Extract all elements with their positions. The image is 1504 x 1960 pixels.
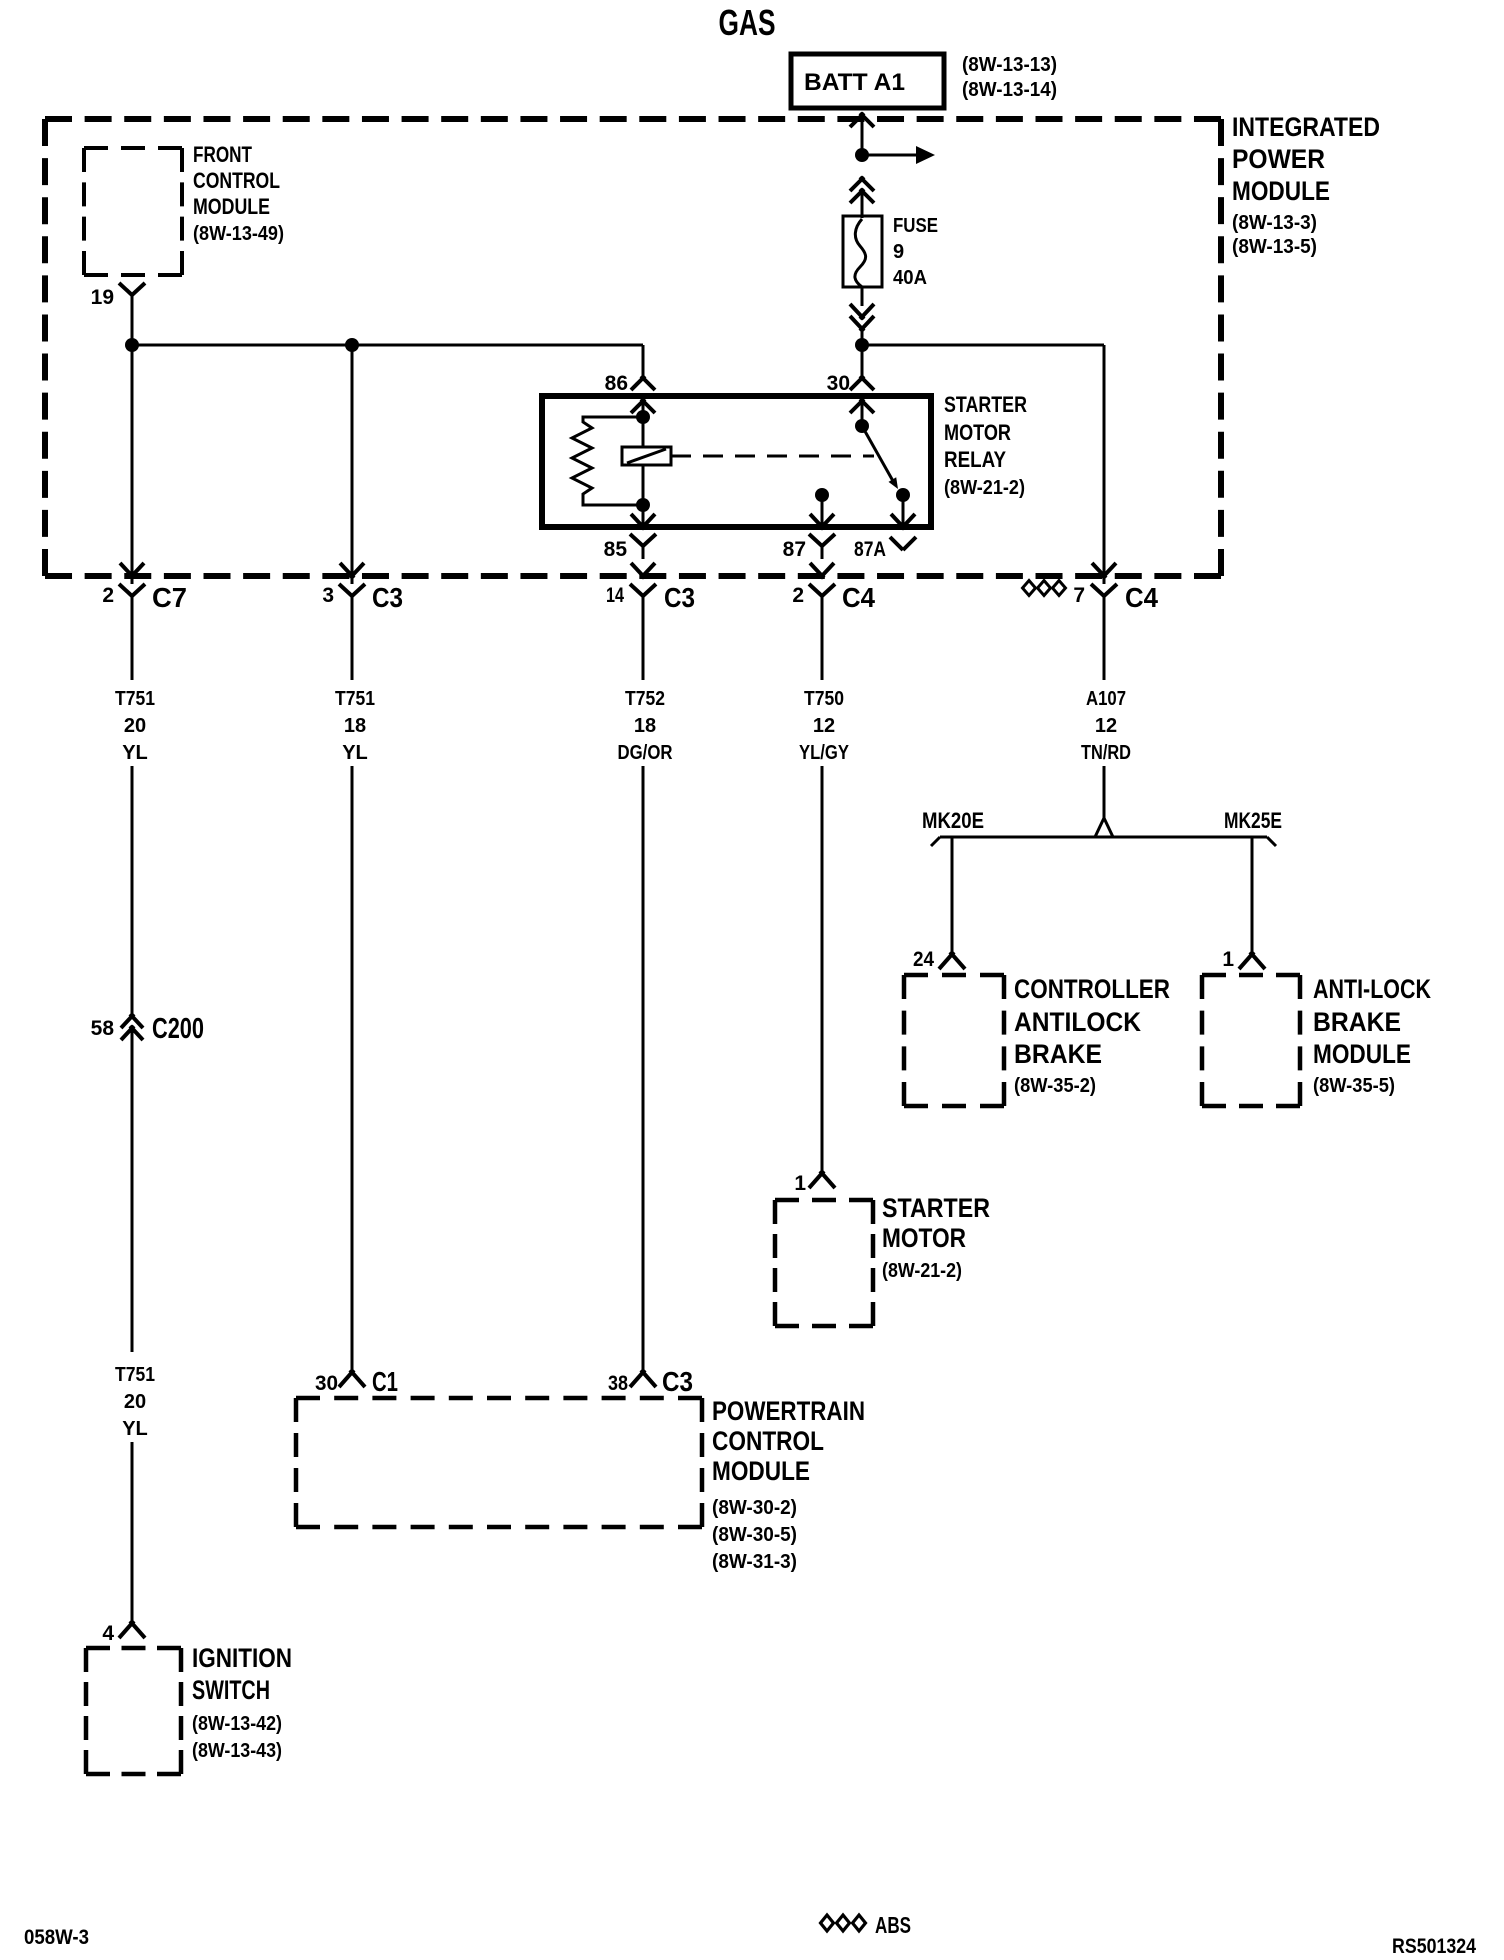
svg-text:A107: A107: [1086, 688, 1126, 710]
svg-text:30: 30: [827, 372, 850, 395]
label ignition switch: [192, 1643, 292, 1762]
node relay common pin30: [855, 419, 869, 433]
svg-text:C3: C3: [664, 582, 695, 613]
svg-text:(8W-35-5): (8W-35-5): [1313, 1075, 1395, 1097]
connector relay pin 85 exit arrow: [631, 514, 655, 529]
svg-text:STARTER: STARTER: [944, 392, 1027, 417]
svg-text:BATT A1: BATT A1: [804, 69, 905, 96]
svg-text:(8W-13-42): (8W-13-42): [192, 1713, 282, 1735]
label front control module: [193, 142, 284, 245]
svg-text:BRAKE: BRAKE: [1313, 1007, 1401, 1037]
wire junction to fuse: [861, 190, 864, 218]
node junction left bus: [125, 338, 139, 352]
svg-text:C1: C1: [372, 1366, 398, 1397]
splice of A107 to MK20E/MK25E: [931, 818, 1276, 846]
connector pin 85: [604, 534, 656, 561]
svg-text:(8W-21-2): (8W-21-2): [882, 1260, 962, 1282]
node fuse output junction: [855, 338, 869, 352]
label controller antilock brake: [1014, 974, 1170, 1097]
svg-text:STARTER: STARTER: [882, 1193, 990, 1223]
wire col4 to starter motor: [821, 766, 824, 1172]
svg-text:20: 20: [124, 715, 146, 737]
wire col3 to PCM: [642, 766, 645, 1371]
wire MK20E drop: [951, 837, 954, 953]
svg-text:TN/RD: TN/RD: [1081, 742, 1131, 764]
wire col4 below C4: [821, 595, 824, 680]
wire bus left (y=345): [132, 344, 643, 347]
ignition switch box (dashed): [86, 1648, 181, 1774]
label MK25E: [1224, 808, 1282, 833]
svg-text:C3: C3: [372, 582, 403, 613]
svg-text:CONTROL: CONTROL: [193, 168, 280, 193]
connector pin 1 (starter motor): [794, 1171, 835, 1195]
wire junction to relay pin30: [861, 345, 864, 377]
svg-text:30: 30: [315, 1372, 338, 1395]
svg-text:(8W-13-5): (8W-13-5): [1232, 236, 1317, 258]
wire col1 to C200: [131, 766, 134, 1015]
svg-text:ABS: ABS: [875, 1912, 911, 1938]
node relay contact 87: [815, 488, 829, 502]
wire fuse to chevrons: [861, 286, 864, 306]
svg-text:RELAY: RELAY: [944, 447, 1006, 472]
wire bus right (y=345): [862, 344, 1104, 347]
wire col2 bus to IPM edge: [351, 345, 354, 584]
fuse 9 40A: [843, 216, 882, 287]
connector 58 C200: [91, 1013, 204, 1045]
svg-text:86: 86: [605, 372, 628, 395]
svg-text:POWER: POWER: [1232, 144, 1325, 174]
svg-text:(8W-30-5): (8W-30-5): [712, 1524, 797, 1546]
powertrain control module box (dashed): [296, 1398, 702, 1527]
svg-text:MODULE: MODULE: [712, 1456, 810, 1486]
svg-text:(8W-13-49): (8W-13-49): [193, 223, 284, 245]
wire B+ tap arrow: [862, 146, 935, 164]
wire pin30 into relay: [861, 398, 864, 426]
connector arrow into BATT A1: [850, 113, 874, 127]
title GAS: [719, 2, 776, 43]
connector arrow col2 at IPM edge: [340, 563, 364, 578]
wire col5 drop from bus: [1103, 345, 1106, 584]
svg-text:19: 19: [91, 286, 114, 309]
label BATT A1 references: [962, 54, 1057, 101]
svg-text:MK20E: MK20E: [922, 808, 984, 833]
connector 14 C3: [606, 582, 695, 613]
label anti-lock brake module: [1313, 974, 1431, 1097]
svg-text:CONTROL: CONTROL: [712, 1426, 824, 1456]
svg-text:058W-3: 058W-3: [24, 1926, 89, 1949]
svg-text:MOTOR: MOTOR: [882, 1223, 966, 1253]
starter motor box (dashed): [775, 1200, 873, 1326]
connector 38 C3 (PCM): [608, 1366, 693, 1397]
svg-text:2: 2: [102, 584, 114, 607]
wire coil bottom lead: [642, 465, 645, 505]
relay switch arm to 87A: [862, 426, 898, 489]
svg-text:MK25E: MK25E: [1224, 808, 1282, 833]
battery feed box BATT A1: [791, 54, 944, 108]
svg-text:(8W-30-2): (8W-30-2): [712, 1497, 797, 1519]
svg-text:C4: C4: [842, 582, 875, 613]
svg-text:T750: T750: [804, 688, 844, 710]
connector arrow col5 at IPM edge: [1092, 563, 1116, 578]
svg-text:C3: C3: [662, 1366, 693, 1397]
svg-text:IGNITION: IGNITION: [192, 1643, 292, 1673]
wire col2 to PCM: [351, 766, 354, 1371]
svg-text:POWERTRAIN: POWERTRAIN: [712, 1396, 865, 1426]
wire col1 through IPM edge: [131, 345, 134, 584]
connector pin 19 (FCM): [91, 283, 145, 309]
connector 2 C7: [102, 582, 187, 613]
svg-text:3: 3: [322, 584, 334, 607]
wire pin85 exit: [642, 505, 645, 526]
node B+ junction: [855, 148, 869, 162]
svg-text:T751: T751: [115, 688, 155, 710]
node relay coil bottom: [636, 498, 650, 512]
label drawing number RS501324: [1392, 1935, 1476, 1958]
label wire T750 12 YL/GY (col4): [799, 688, 850, 764]
svg-text:ANTILOCK: ANTILOCK: [1014, 1007, 1141, 1037]
svg-text:14: 14: [606, 584, 624, 607]
svg-text:T751: T751: [115, 1364, 155, 1386]
svg-text:4: 4: [102, 1622, 114, 1645]
footnote ABS diamonds: [821, 1912, 912, 1938]
connector pin 87A: [854, 537, 916, 561]
svg-text:87A: 87A: [854, 538, 886, 561]
svg-text:85: 85: [604, 538, 628, 561]
connector pin 1 (ABM): [1222, 948, 1265, 971]
wire MK25E drop: [1251, 837, 1254, 953]
svg-text:2: 2: [792, 584, 804, 607]
svg-text:GAS: GAS: [719, 2, 776, 43]
connector double chevron below fuse: [850, 304, 874, 331]
svg-text:YL/GY: YL/GY: [799, 742, 850, 764]
anti-lock brake module box (dashed): [1202, 975, 1300, 1106]
svg-text:7: 7: [1073, 584, 1085, 607]
wire BATT to junction: [861, 114, 864, 155]
svg-text:MODULE: MODULE: [1232, 176, 1330, 206]
svg-text:(8W-21-2): (8W-21-2): [944, 477, 1025, 499]
connector arrow col4 at IPM edge: [810, 563, 834, 578]
svg-text:40A: 40A: [893, 267, 927, 289]
connector arrow col1 at IPM edge: [120, 563, 144, 578]
label wire A107 12 TN/RD (col5): [1081, 688, 1131, 764]
connector pin 24 (CAB): [913, 948, 965, 971]
svg-text:58: 58: [91, 1017, 115, 1040]
label wire T751 20 YL (col1 lower): [115, 1364, 155, 1440]
svg-text:SWITCH: SWITCH: [192, 1675, 270, 1705]
connector 2 C4: [792, 582, 875, 613]
svg-text:(8W-13-13): (8W-13-13): [962, 54, 1057, 76]
svg-text:BRAKE: BRAKE: [1014, 1039, 1102, 1069]
svg-text:YL: YL: [122, 742, 148, 764]
label integrated power module: [1232, 112, 1380, 258]
svg-text:RS501324: RS501324: [1392, 1935, 1476, 1958]
svg-text:C4: C4: [1125, 582, 1158, 613]
connector 7 C4 with ABS diamonds: [1023, 581, 1159, 614]
svg-text:FUSE: FUSE: [893, 215, 938, 237]
svg-text:1: 1: [1222, 948, 1234, 971]
front control module box (dashed): [84, 148, 182, 275]
wire col1 to ignition switch: [131, 1442, 134, 1622]
node junction mid bus: [345, 338, 359, 352]
svg-text:1: 1: [794, 1172, 806, 1195]
svg-text:24: 24: [913, 948, 934, 971]
svg-text:20: 20: [124, 1391, 146, 1413]
svg-text:(8W-13-43): (8W-13-43): [192, 1740, 282, 1762]
wire pin87A exit: [902, 495, 905, 526]
controller antilock brake box (dashed): [904, 975, 1004, 1106]
svg-text:YL: YL: [342, 742, 368, 764]
wire coil top lead: [642, 417, 645, 447]
wire FCM pin19 to bus: [131, 294, 134, 345]
svg-text:(8W-31-3): (8W-31-3): [712, 1551, 797, 1573]
svg-text:18: 18: [634, 715, 656, 737]
wire col2 below C3: [351, 595, 354, 680]
svg-text:YL: YL: [122, 1418, 148, 1440]
svg-text:DG/OR: DG/OR: [618, 742, 673, 764]
svg-text:CONTROLLER: CONTROLLER: [1014, 974, 1170, 1004]
svg-text:MODULE: MODULE: [1313, 1039, 1411, 1069]
label starter motor: [882, 1193, 990, 1282]
svg-text:9: 9: [893, 241, 904, 263]
connector double chevron below B+: [850, 177, 874, 203]
connector arrow col3 at IPM edge: [631, 563, 655, 578]
connector relay pin 30: [827, 372, 874, 413]
svg-text:C200: C200: [152, 1013, 204, 1045]
svg-text:FRONT: FRONT: [193, 142, 252, 167]
connector 30 C1 (PCM): [315, 1366, 398, 1397]
label starter motor relay: [944, 392, 1027, 499]
wire pin87 exit: [821, 495, 824, 526]
wire coil actuator dashed link: [671, 455, 874, 458]
label wire T752 18 DG/OR (col3): [618, 688, 673, 764]
wire relay pin86 drop: [642, 345, 645, 377]
node relay contact 87A: [896, 488, 910, 502]
wire pin86 into relay: [642, 398, 645, 417]
svg-text:T751: T751: [335, 688, 375, 710]
label wire T751 18 YL (col2): [335, 688, 375, 764]
wire col1 below C7: [131, 595, 134, 680]
label powertrain control module: [712, 1396, 865, 1573]
label sheet number 058W-3: [24, 1926, 89, 1949]
relay coil: [622, 447, 671, 465]
svg-text:18: 18: [344, 715, 366, 737]
label fuse 9 40A: [893, 215, 938, 289]
node relay coil top: [636, 410, 650, 424]
wire chevrons to junction: [861, 330, 864, 345]
connector relay pin 86: [605, 372, 655, 413]
connector pin 87: [783, 534, 835, 561]
starter motor relay box K1: [542, 396, 931, 527]
svg-text:INTEGRATED: INTEGRATED: [1232, 112, 1380, 142]
svg-text:MOTOR: MOTOR: [944, 420, 1011, 445]
svg-text:38: 38: [608, 1372, 628, 1395]
svg-text:MODULE: MODULE: [193, 194, 270, 219]
connector relay pin 87 exit arrow: [810, 514, 834, 529]
connector relay pin 87A exit arrow: [891, 514, 915, 529]
wire col5 below C4: [1103, 595, 1106, 680]
svg-text:ANTI-LOCK: ANTI-LOCK: [1313, 974, 1431, 1004]
connector pin 4 (ignition switch): [102, 1621, 145, 1645]
connector 3 C3: [322, 582, 403, 613]
svg-text:12: 12: [813, 715, 835, 737]
svg-text:(8W-35-2): (8W-35-2): [1014, 1075, 1096, 1097]
integrated power module box (dashed): [45, 119, 1221, 576]
label MK20E: [922, 808, 984, 833]
svg-text:87: 87: [783, 538, 806, 561]
resistor relay coil suppression: [572, 417, 643, 505]
wire col5 to splice: [1103, 766, 1106, 819]
svg-text:12: 12: [1095, 715, 1117, 737]
wire col1 below C200: [131, 1027, 134, 1352]
svg-text:(8W-13-14): (8W-13-14): [962, 79, 1057, 101]
label wire T751 20 YL (col1 upper): [115, 688, 155, 764]
svg-text:(8W-13-3): (8W-13-3): [1232, 212, 1317, 234]
wire col3 below C3: [642, 595, 645, 680]
svg-text:T752: T752: [625, 688, 665, 710]
svg-text:C7: C7: [152, 582, 187, 613]
